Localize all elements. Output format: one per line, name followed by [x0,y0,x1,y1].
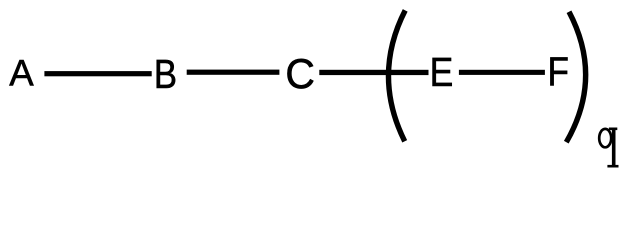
left parenthesis [388,10,405,141]
svg-text:B: B [154,51,177,96]
subscript q top serif [609,128,617,131]
subscript q bowl [599,129,611,147]
svg-text:C: C [285,51,315,97]
wire [187,70,280,75]
subscript q bottom serif [607,165,618,168]
svg-text:F: F [547,50,568,95]
wire [44,71,151,76]
subscript q stem [612,128,616,167]
wire [319,70,428,75]
right parenthesis [566,12,585,143]
svg-text:E: E [430,51,454,96]
svg-text:A: A [9,51,34,93]
wire [459,70,545,75]
